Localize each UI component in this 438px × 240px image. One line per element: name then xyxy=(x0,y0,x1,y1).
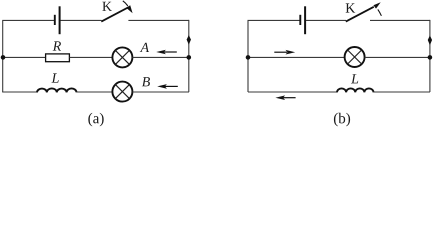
resistor R xyxy=(46,54,70,62)
wire: (a) middle, resistor to lamp A xyxy=(70,56,113,58)
wire: (a) left vertical xyxy=(2,20,4,92)
wire: (a) middle, node to resistor xyxy=(2,56,45,58)
label R xyxy=(53,41,61,50)
node: (b) left junction dot xyxy=(246,55,251,60)
battery GB (a): short plate xyxy=(54,15,56,25)
wire: (a) top, switch contact to right corner xyxy=(128,19,189,21)
battery GB (a): long plate xyxy=(59,6,61,34)
lamp B: cross xyxy=(115,85,129,99)
battery GB (b): long plate xyxy=(304,6,306,34)
lamp (b): cross xyxy=(348,50,362,64)
battery GB (b): short plate xyxy=(299,15,301,25)
wire: (b) bottom, left corner to inductor xyxy=(248,91,337,93)
wire: (a) top, battery to switch pivot xyxy=(61,19,102,21)
switch K (a): blade xyxy=(101,7,128,21)
wire: (b) middle, lamp to right node xyxy=(365,56,430,58)
caption (a) xyxy=(88,113,103,127)
label L (b) xyxy=(351,74,358,83)
switch K (b): opening-motion arrow xyxy=(378,9,382,15)
wire: (b) left vertical xyxy=(247,20,249,92)
wire: (a) top, left corner to battery xyxy=(2,19,54,21)
lamp A: envelope xyxy=(112,47,132,67)
node: (b) right junction dot xyxy=(428,55,433,60)
wire: (a) right vertical xyxy=(188,20,190,92)
wire: (b) bottom, inductor to right corner xyxy=(374,91,431,93)
wire: (a) bottom, left corner to inductor xyxy=(2,91,37,93)
wire: (b) top, switch contact to right corner xyxy=(370,19,430,21)
wire: (b) middle, node to lamp xyxy=(248,56,345,58)
current arrow down on (a) right wire xyxy=(187,35,191,45)
lamp A: cross xyxy=(115,50,129,64)
caption (b) xyxy=(334,113,350,127)
current arrow left on (a) middle wire xyxy=(164,51,177,53)
wire: (a) middle, lamp A to right node xyxy=(132,56,189,58)
inductor L (a) xyxy=(37,88,77,92)
wire: (b) top, left corner to battery xyxy=(248,19,300,21)
current arrow down on (b) right wire xyxy=(428,35,432,45)
label A xyxy=(140,43,149,52)
current arrow left under (b) bottom wire xyxy=(283,97,296,99)
wire: (a) bottom, lamp B to right corner xyxy=(132,91,189,93)
switch K (a): closing-motion arrow xyxy=(123,1,128,6)
label B xyxy=(142,77,150,86)
switch K (b): blade xyxy=(346,7,374,22)
node: (a) right junction dot xyxy=(187,55,192,60)
wire: (b) top, battery to switch pivot xyxy=(306,19,346,21)
label K (a) xyxy=(102,2,112,11)
wire: (b) right vertical xyxy=(429,20,431,92)
lamp (b): envelope xyxy=(345,47,365,67)
current arrow right on (b) middle wire xyxy=(274,51,287,53)
node: (a) left junction dot xyxy=(1,55,6,60)
wire: (a) bottom, inductor to lamp B xyxy=(77,91,113,93)
current arrow left on (a) bottom wire xyxy=(165,85,178,87)
lamp B: envelope xyxy=(112,82,132,102)
inductor L (b) xyxy=(337,88,374,92)
label K (b) xyxy=(346,3,356,12)
label L (a) xyxy=(51,73,58,82)
